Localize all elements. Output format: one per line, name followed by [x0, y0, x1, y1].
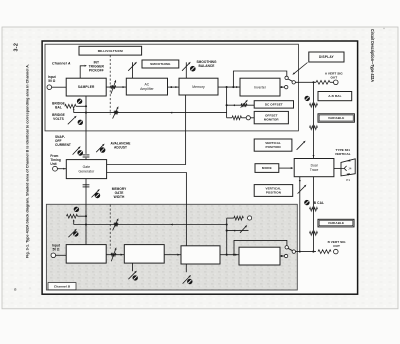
wire: int trigger pickoff stub	[80, 66, 84, 78]
resistor: B cal variable	[310, 207, 318, 211]
box: VERTICAL POSITION (B)	[254, 185, 293, 197]
capacitor: gate coupling lower	[83, 185, 90, 187]
variable arrow: vertical position B	[298, 185, 307, 194]
svg-text:POSITION: POSITION	[266, 145, 281, 149]
terminal: Channel A input connector	[47, 85, 52, 90]
wire: bridge resistor to strobe line	[76, 105, 86, 107]
wire: memory B feedback line to bridge B	[74, 224, 227, 226]
variable arrow: smoothing control	[128, 62, 137, 71]
svg-text:SMOOTHING: SMOOTHING	[150, 62, 171, 66]
arrowhead: dual trace B gate down	[299, 180, 301, 182]
pot: avalanche adjust	[100, 147, 106, 153]
variable arrow: feedback attenuator	[113, 106, 119, 118]
terminal: Channel B input connector	[51, 253, 56, 258]
box: VARIABLE control (B)	[318, 219, 354, 227]
svg-text:MILLIVOLTS/CM: MILLIVOLTS/CM	[98, 49, 123, 53]
svg-text:3-2: 3-2	[14, 43, 20, 52]
wire: memory B to inverter B	[220, 254, 239, 256]
switch contact: A inverter (lower)	[285, 85, 288, 88]
wire: gate generator to sampler B strobe line	[85, 158, 87, 245]
junction: memory output to bypass branch	[232, 86, 234, 88]
box: MODE switch	[255, 164, 279, 173]
box: gate generator	[66, 160, 106, 179]
junction: inverter B output	[281, 255, 283, 257]
label: J4	[348, 167, 352, 171]
svg-text:Inverter: Inverter	[254, 85, 267, 89]
wire: A signal chain vertical upper	[313, 82, 315, 158]
linkage: millivolts/cm dashed line (upper)	[109, 55, 111, 114]
box: DC OFFSET control	[254, 101, 293, 108]
svg-text:VOLTS: VOLTS	[53, 117, 64, 121]
arrowhead: into dual trace	[291, 167, 293, 169]
label: B VERT SIG OUT	[328, 240, 347, 248]
svg-text:50 Ω: 50 Ω	[48, 79, 55, 83]
box: memory (A)	[179, 78, 218, 95]
switch pole: display A	[292, 81, 295, 84]
box: AC amplifier (B, unlabeled)	[124, 245, 164, 264]
svg-text:OUT: OUT	[333, 244, 340, 248]
svg-text:VARIABLE: VARIABLE	[328, 116, 344, 120]
Channel B shaded area	[46, 204, 297, 290]
wire: A signal chain vertical lower	[313, 177, 315, 252]
wire: B input to sampler B	[56, 254, 66, 256]
wire: dual trace to output connector J4	[334, 167, 344, 169]
pot: smoothing B adjust	[133, 275, 138, 280]
arrow: display switch pointer	[292, 63, 307, 75]
svg-text:Generator: Generator	[79, 169, 96, 173]
label: B CAL	[314, 201, 324, 205]
terminal: B offset monitor jack	[248, 216, 252, 220]
junction: AC amp output	[170, 86, 172, 88]
svg-text:Channel A: Channel A	[52, 62, 71, 66]
wire: inverter B output stub	[280, 255, 284, 257]
svg-text:50 Ω: 50 Ω	[53, 247, 60, 251]
scan speck below shade	[257, 270, 258, 271]
wire: smoothing stub below AC amp B	[132, 263, 134, 271]
svg-text:MONITOR: MONITOR	[264, 118, 280, 122]
wire: memory feedback line to bridge	[74, 112, 227, 114]
resistor: dc offset	[241, 103, 247, 107]
arrowhead: into inverter B	[235, 254, 237, 256]
wire: sampler B to AC amplifier B	[104, 254, 124, 256]
wire: dc offset row	[227, 104, 255, 106]
variable arrow: vertical position A	[297, 141, 306, 150]
resistor: B feedback attenuator	[114, 223, 118, 227]
junction: stub at pole line	[299, 251, 301, 253]
arrowhead: into AC amplifier B	[121, 254, 123, 256]
wire: smoothing balance stub above memory	[185, 62, 187, 78]
pot: A-B BAL adjust	[305, 96, 310, 101]
resistor: A-B bal variable	[310, 103, 318, 107]
svg-text:OUT: OUT	[330, 76, 337, 80]
junction: strobe line / bridge resistor	[85, 105, 87, 107]
wire: A vert sig out junction to resistor	[314, 81, 317, 83]
wire: B offset monitor row	[227, 217, 234, 219]
svg-text:DC OFFSET: DC OFFSET	[265, 102, 283, 106]
wire: AC amplifier B to memory B	[164, 254, 181, 256]
wire tail into connector	[341, 167, 344, 169]
pot: memory gate width adjust	[95, 193, 101, 199]
box: memory (B, unlabeled)	[181, 246, 220, 264]
arrowhead: bridge bal B wiper	[73, 219, 75, 221]
svg-text:Amplifier: Amplifier	[140, 87, 154, 91]
Channel A section box	[45, 44, 298, 131]
junction: memory output to DC offset branch	[226, 86, 228, 88]
pot: smoothing balance B adjust	[187, 279, 192, 284]
wire: dc offset branch vertical	[226, 87, 228, 118]
variable arrow: memory gate width	[92, 189, 100, 197]
terminal: trigger input from timing unit	[53, 166, 58, 171]
svg-text:VERTICAL: VERTICAL	[335, 152, 351, 156]
arrowhead: into memory B	[177, 254, 179, 256]
variable arrow: B bridge volts	[68, 229, 76, 237]
svg-text:BAL: BAL	[55, 106, 62, 110]
label: SMOOTHING BALANCE	[196, 60, 217, 68]
arrowhead: A signal into dual trace	[313, 155, 315, 157]
junction: B offset branch	[226, 254, 228, 256]
resistor: B variable gain	[310, 232, 318, 236]
box: inverter (A)	[240, 78, 280, 96]
svg-text:Trace: Trace	[310, 168, 319, 172]
wire: sampler strobe line down to gate generator	[85, 96, 87, 154]
junction: B vert sig out	[312, 251, 314, 253]
pot: B bridge volts adjust	[73, 231, 78, 236]
variable arrow: smoothing B	[128, 271, 137, 280]
wire: memory to inverter	[218, 86, 240, 88]
resistor: A variable gain	[310, 126, 318, 130]
svg-text:A-B BAL: A-B BAL	[328, 94, 341, 98]
wire: inverter bypass line	[233, 71, 286, 87]
wire: gate output upper to memory A	[107, 95, 186, 165]
label: MEMORY GATE WIDTH	[112, 187, 127, 199]
arrowhead: bridge bal wiper	[73, 108, 75, 110]
svg-text:ADJUST: ADJUST	[114, 146, 127, 150]
variable arrow: smoothing balance B	[183, 275, 191, 284]
switch contact: B bypass (upper)	[285, 246, 288, 249]
svg-text:Memory: Memory	[192, 85, 205, 89]
svg-text:Channel B: Channel B	[54, 284, 71, 288]
diagram outer frame	[42, 41, 358, 294]
wire: dual trace bottom stub to B pole line	[299, 177, 301, 252]
label: A VERT SIG OUT	[325, 72, 343, 80]
svg-text:WIDTH: WIDTH	[114, 195, 125, 199]
wire: mode to dual trace	[279, 167, 293, 169]
svg-text:PICKOFF: PICKOFF	[89, 69, 104, 73]
svg-text:VARIABLE: VARIABLE	[328, 221, 344, 225]
pot: B bridge pot upper	[74, 207, 79, 212]
pot: bridge volts adjust	[78, 120, 83, 125]
switch blade: display A	[288, 79, 293, 81]
arrowhead: dc offset row direction	[233, 104, 235, 106]
wire: bridge resistor B to strobe line	[78, 215, 87, 217]
switch pole: B output	[292, 250, 295, 253]
box: inverter (B, unlabeled)	[239, 247, 280, 265]
box: OFFSET MONITOR	[254, 111, 288, 123]
variable attenuator: sampler B to AC amp B	[111, 247, 116, 261]
pot: B CAL adjust	[304, 200, 309, 205]
arrowhead: feedback line direction	[170, 112, 172, 114]
wire: A vert sig resistor to terminal	[330, 81, 334, 83]
junction: inverter output	[281, 86, 283, 88]
junction: B feedback at offset branch	[226, 223, 228, 225]
label: BRIDGE BAL	[52, 102, 65, 110]
svg-text:J4: J4	[348, 167, 352, 171]
wire: inverter output stub	[280, 86, 284, 88]
label: P1	[346, 178, 350, 182]
svg-text:Unit: Unit	[50, 162, 57, 166]
arrowhead: B dc offset row direction	[233, 230, 235, 232]
junction: strobe line / feedback line	[85, 112, 87, 114]
wire: display switch pole to output junction	[295, 81, 313, 83]
resistor: bridge bal B	[67, 214, 78, 218]
box: sampler (A)	[66, 78, 106, 96]
connector J4/P1 body (parallelogram)	[341, 159, 355, 176]
box: Channel B label	[48, 283, 76, 290]
label: From Timing Unit	[50, 154, 60, 166]
wire: offset monitor resistor to jack	[242, 117, 247, 119]
wire: gate output lower to memory B	[107, 173, 187, 246]
resistor: offset monitor	[232, 116, 242, 120]
pot: snap-off current adjust	[77, 150, 83, 156]
junction: A vert sig out	[312, 81, 314, 83]
label: Input 50 ohms (A)	[48, 75, 57, 83]
svg-text:P1: P1	[346, 178, 350, 182]
wire: bridge bal B wiper arrow	[73, 221, 75, 225]
pin arrow top of connector	[347, 160, 351, 162]
label: SNAP-OFF CURRENT	[55, 135, 71, 147]
variable attenuator: sampler to AC amp	[111, 80, 116, 94]
label: TYPE 661 VERTICAL	[335, 148, 351, 156]
label: BRIDGE VOLTS	[52, 113, 65, 121]
wire: AC amplifier to memory	[168, 86, 180, 88]
terminal: A VERT SIG OUT jack	[334, 80, 339, 85]
scan speck left margin	[30, 288, 31, 289]
linkage: millivolts/cm dashed line (lower)	[109, 205, 111, 249]
svg-text:POSITION: POSITION	[266, 191, 281, 195]
box: VARIABLE control (A)	[318, 114, 354, 122]
box: dual trace amplifier	[294, 159, 334, 177]
variable arrow: smoothing balance control	[182, 62, 191, 71]
arrowhead: into gate generator	[63, 168, 65, 170]
junction: B bypass branch	[233, 254, 235, 256]
variable arrow: B dc offset adjust	[240, 225, 247, 233]
arrowhead: into memory	[175, 86, 177, 88]
terminal: offset monitor jack	[246, 116, 250, 120]
resistor: A feedback attenuator	[114, 111, 118, 115]
wire: smoothing stub above AC amplifier	[132, 62, 134, 78]
junction: strobe B / bridge resistor B	[85, 215, 87, 217]
wire: timing input to gate generator	[57, 168, 66, 170]
arrowhead: into AC amplifier	[123, 86, 125, 88]
svg-text:BALANCE: BALANCE	[199, 64, 215, 68]
label: INT TRIGGER PICKOFF	[89, 61, 105, 73]
box: SMOOTHING control	[142, 60, 179, 68]
pot: smoothing balance adjust	[190, 66, 196, 72]
box: AC amplifier (A)	[126, 78, 167, 95]
resistor: B offset monitor	[234, 216, 244, 220]
box: MILLIVOLTS/CM switch	[79, 46, 142, 55]
box: DISPLAY switch label	[309, 52, 344, 62]
scan speck top right	[383, 28, 384, 29]
pin arrow bottom of connector	[346, 173, 350, 175]
variable arrow: avalanche adjust	[96, 144, 104, 153]
wire: B switch pole to B vert sig junction	[296, 251, 317, 253]
svg-text:Circuit Description—Type 432A: Circuit Description—Type 432A	[370, 29, 375, 82]
switch blade: B output	[288, 248, 293, 250]
arrowhead: B feedback line direction	[171, 224, 173, 226]
svg-text:Fig. 3-1. Type 432A block diag: Fig. 3-1. Type 432A block diagram. Shade…	[25, 64, 29, 258]
capacitor: gate coupling upper	[83, 155, 90, 157]
box: A-B BAL control	[318, 92, 352, 101]
wire: bridge bal wiper arrow	[73, 109, 75, 112]
box: sampler (B, unlabeled)	[66, 245, 106, 264]
box: VERTICAL POSITION (A)	[254, 139, 292, 151]
label: AVALANCHE ADJUST	[111, 142, 131, 150]
junction: B dc offset row	[226, 230, 228, 232]
wire: B dc offset row	[227, 230, 249, 232]
wire: inverter B bypass line	[234, 240, 287, 254]
svg-text:CURRENT: CURRENT	[55, 143, 71, 147]
wire: B offset branch vertical	[226, 218, 228, 255]
connector chevron inside J4	[344, 166, 346, 171]
label: Channel A	[52, 62, 71, 66]
arrowhead: int trigger pickoff	[85, 65, 87, 67]
variable arrow: B feedback attenuator	[113, 218, 119, 230]
wire: sampler output to AC amplifier	[106, 86, 126, 88]
wire: A input to sampler	[52, 86, 67, 88]
variable arrow: bridge volts	[68, 116, 77, 125]
svg-text:B CAL: B CAL	[314, 201, 324, 205]
terminal: B VERT SIG OUT jack	[334, 249, 339, 254]
variable arrow: snap-off current	[73, 146, 81, 154]
wire: offset monitor row	[227, 117, 232, 119]
arrowhead: into inverter	[236, 86, 238, 88]
resistor: bridge bal	[65, 104, 76, 108]
svg-text:MODE: MODE	[262, 166, 272, 170]
resistor: A vert sig out isolation	[316, 80, 330, 84]
switch contact: A bypass (upper)	[285, 76, 288, 79]
resistor: B input attenuator	[111, 253, 116, 257]
resistor: B vert sig out isolation	[318, 250, 331, 254]
junction: dc offset row	[226, 104, 228, 106]
svg-text:SAMPLER: SAMPLER	[78, 85, 95, 89]
wire: smoothing balance stub below memory B	[185, 264, 187, 272]
switch contact: B inverter (lower)	[284, 254, 287, 257]
variable arrow: dc offset adjust	[241, 100, 248, 108]
pot: bridge bal adjust	[77, 99, 82, 104]
junction: strobe B / feedback B	[85, 223, 87, 225]
svg-text:DISPLAY: DISPLAY	[319, 55, 335, 59]
wire: offset monitor jack to box	[250, 117, 254, 119]
resistor: A input attenuator	[111, 85, 116, 89]
label: Input 50 ohms (B)	[52, 244, 61, 252]
